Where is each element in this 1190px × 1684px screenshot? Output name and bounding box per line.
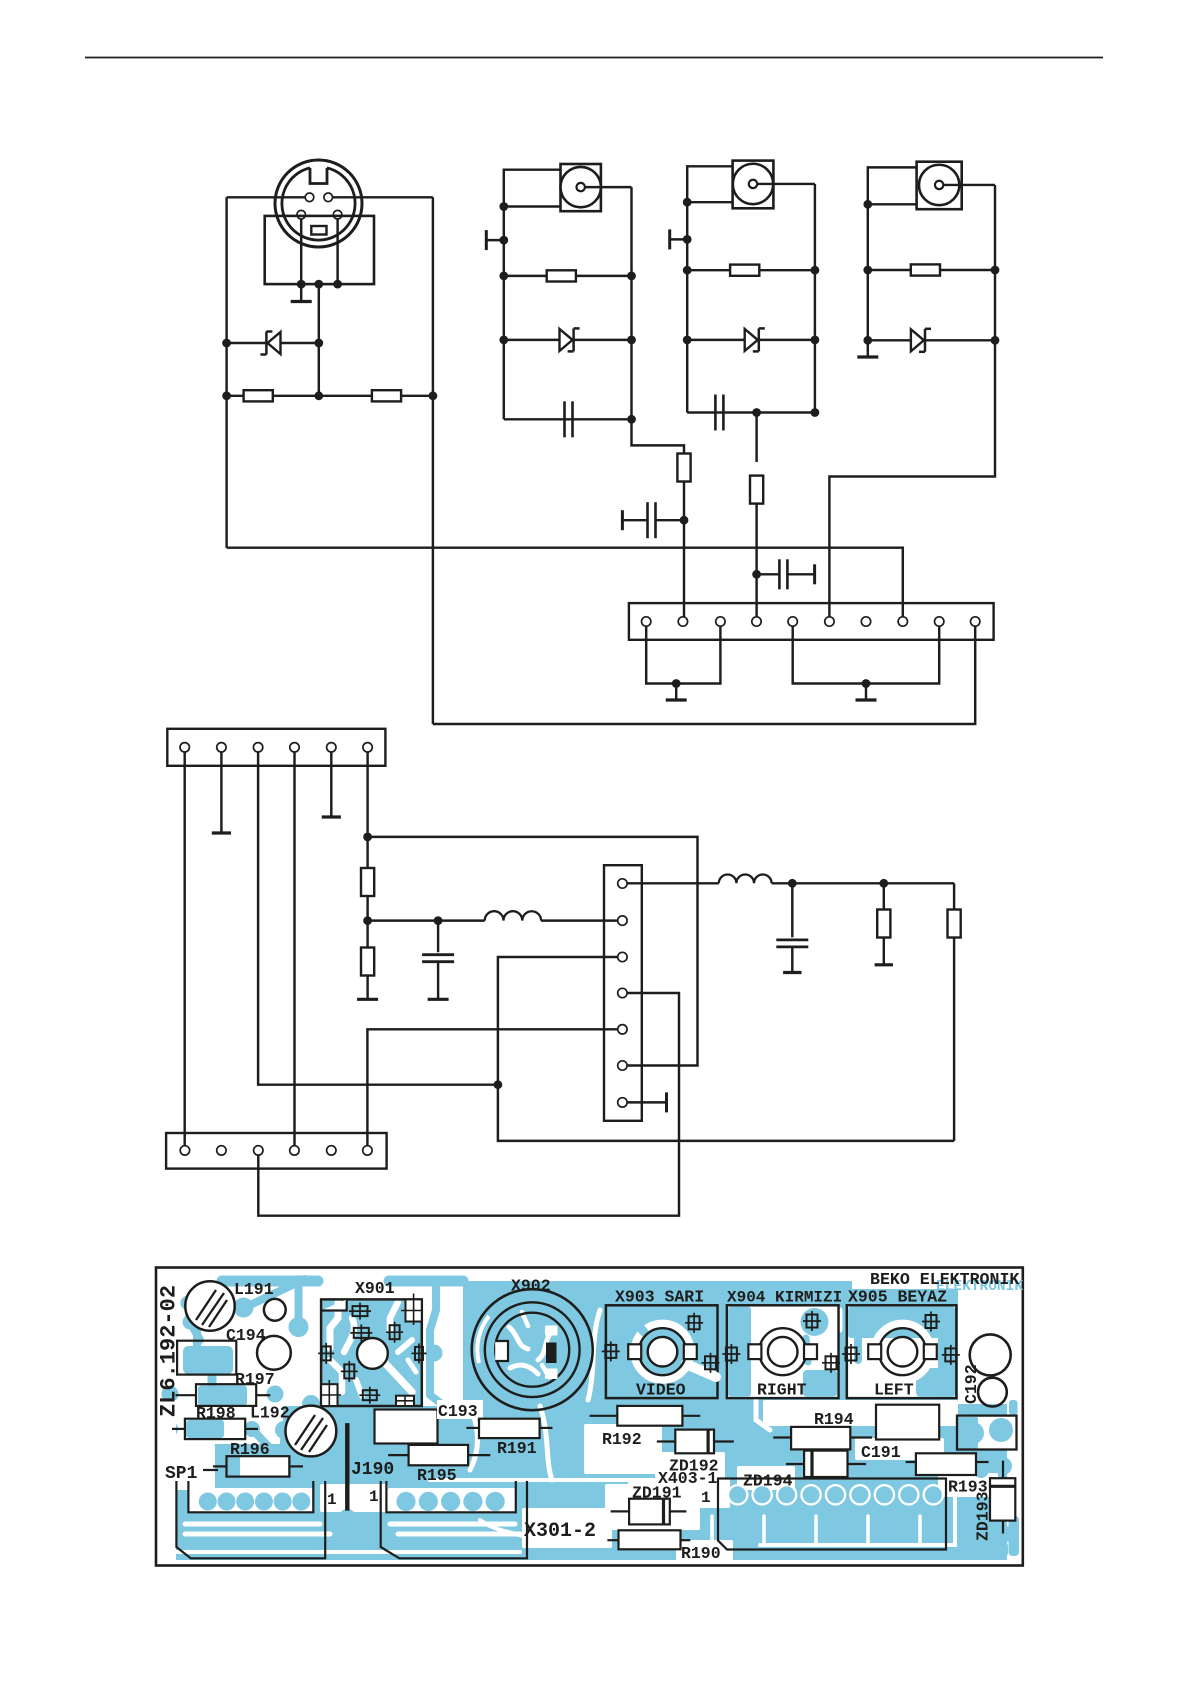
svg-text:R191: R191	[497, 1439, 537, 1458]
svg-text:C194: C194	[226, 1326, 266, 1345]
wire R193 to bottom rail	[953, 938, 955, 1141]
junction capacitor row right	[811, 408, 820, 417]
capacitor C193 to open terminal	[657, 519, 685, 521]
left bus wire down from pin3	[225, 197, 227, 547]
junction terminal row	[683, 235, 692, 244]
RCA socket tip	[577, 183, 585, 191]
ground wire pins 5-9	[793, 627, 940, 684]
junction diode row right	[811, 336, 820, 345]
X403 pin 4	[618, 988, 627, 997]
svg-text:X901: X901	[355, 1279, 395, 1298]
wire diode row DIN	[227, 342, 319, 344]
mini-DIN pin 3	[305, 193, 314, 202]
zener ZD191 body	[611, 1510, 630, 1512]
junction resistor row left	[863, 266, 872, 275]
wire pin1 to lower strip	[183, 752, 185, 1146]
X902 left notch	[495, 1341, 508, 1361]
wire X403 pin1 to coil	[627, 882, 719, 884]
PCB frame	[156, 1268, 1023, 1566]
junction diode row left	[222, 339, 231, 348]
wire long horizontal to connector pin10	[433, 617, 975, 724]
junction top loop	[499, 202, 508, 211]
capacitor	[714, 395, 717, 431]
X403 pin 7	[618, 1098, 627, 1107]
wire X403 pin4 loop	[258, 993, 679, 1216]
junction diode row right	[314, 339, 323, 348]
upper strip pin 3	[253, 743, 262, 752]
svg-text:VIDEO: VIDEO	[636, 1381, 686, 1400]
X403 pad row	[727, 1484, 944, 1506]
connector pin 4	[752, 617, 761, 626]
junction top loop	[863, 200, 872, 209]
svg-text:1: 1	[701, 1489, 711, 1507]
coil L191 top view	[185, 1281, 234, 1330]
C192 pads	[970, 1334, 1011, 1375]
svg-text:LEFT: LEFT	[874, 1381, 914, 1400]
left bus wire	[867, 204, 869, 340]
6-pin connector strip upper body	[167, 729, 385, 766]
X905 side tabs	[868, 1344, 881, 1359]
X901 center hole	[357, 1338, 388, 1369]
bracket pad rows	[199, 1492, 505, 1511]
X903 RCA ring	[634, 1323, 691, 1380]
resistor R192 body	[590, 1415, 618, 1417]
wire resistor row DIN	[227, 395, 433, 397]
wire diode row	[504, 339, 632, 341]
lower strip pin 5	[327, 1146, 336, 1155]
label C193	[437, 1400, 483, 1419]
junction resistor row right	[429, 391, 438, 400]
capacitor C191 body	[876, 1405, 939, 1440]
zener diode ZD191	[268, 332, 281, 354]
page top rule	[85, 57, 1103, 59]
svg-text:1: 1	[369, 1488, 379, 1506]
zener diode	[911, 329, 924, 351]
X403 pin 6	[618, 1061, 627, 1070]
ground below left block	[867, 340, 869, 357]
resistor R195 body	[388, 1454, 409, 1456]
wire coil to corner	[772, 882, 955, 884]
svg-text:X903 SARI: X903 SARI	[615, 1288, 704, 1307]
resistor R193 vertical	[948, 910, 961, 938]
right bus wire	[994, 185, 996, 340]
SP1 connector outline inner	[188, 1481, 313, 1512]
S-VHS mini-DIN socket X901 inner shell with key notch	[282, 168, 355, 240]
stub terminal pin5	[330, 752, 332, 817]
junction ground pins 1-3	[672, 679, 681, 688]
mini-DIN pin 1	[297, 210, 306, 219]
svg-text:X904 KIRMIZI: X904 KIRMIZI	[727, 1289, 842, 1307]
wire capacitor row	[504, 418, 632, 420]
zener ZD194 body	[786, 1463, 804, 1465]
svg-text:R195: R195	[417, 1466, 457, 1485]
component outline	[177, 1341, 236, 1375]
wire between resistors	[366, 896, 368, 948]
junction shunt cap node	[788, 879, 797, 888]
junction on box edge right	[333, 280, 342, 289]
junction shunt res node	[879, 879, 888, 888]
resistor vertical lower	[361, 948, 374, 976]
lower strip pin 3	[254, 1146, 263, 1155]
junction resistor row left	[222, 391, 231, 400]
junction diode row right	[627, 336, 636, 345]
connector pin 3	[716, 617, 725, 626]
connector pin 5	[788, 617, 797, 626]
svg-text:L191: L191	[234, 1280, 274, 1299]
RCA block cross pads	[689, 1316, 700, 1329]
inductor L191	[719, 874, 772, 883]
RCA socket tip	[935, 181, 943, 189]
resistor R194 body	[773, 1436, 791, 1438]
junction resistor row left	[499, 272, 508, 281]
jumper J190	[345, 1423, 349, 1511]
X903 footprint box	[606, 1305, 718, 1398]
svg-text:R190: R190	[681, 1544, 721, 1563]
mini-DIN pin 4	[324, 193, 333, 202]
mini-DIN bottom key	[311, 226, 326, 235]
resistor	[911, 264, 940, 275]
X901 footprint box	[321, 1299, 422, 1406]
wire resistor row	[504, 275, 632, 277]
ground symbol pins 5-9	[865, 684, 867, 701]
junction top loop	[683, 198, 692, 207]
X905 RCA ring	[848, 1307, 955, 1397]
connector pin 2	[678, 617, 687, 626]
svg-text:SP1: SP1	[165, 1464, 198, 1484]
PCB layout panel	[156, 1265, 1023, 1566]
junction right block cap row	[752, 408, 761, 417]
junction on box edge mid	[314, 280, 323, 289]
wire tip to right bus	[943, 184, 995, 186]
wire top loop upper	[687, 166, 732, 202]
wire pin4 to lower strip	[293, 752, 295, 1146]
connector pin 6	[825, 617, 834, 626]
zener diode	[560, 329, 573, 351]
resistor	[547, 270, 576, 281]
RCA socket ring	[919, 165, 959, 205]
7-pin connector X403-1 body	[604, 865, 642, 1121]
upper strip pin 2	[217, 743, 226, 752]
wire long horizontal to connector pin8	[227, 548, 903, 617]
junction resistor row left	[683, 266, 692, 275]
svg-text:C192: C192	[962, 1364, 981, 1404]
resistor R198 body	[172, 1428, 185, 1430]
resistor R197 body	[176, 1394, 197, 1396]
svg-text:X905 BEYAZ: X905 BEYAZ	[848, 1288, 947, 1307]
X905 footprint box	[847, 1305, 957, 1398]
capacitor	[563, 401, 566, 437]
component outline right	[957, 1416, 1017, 1450]
connector pin 8	[898, 617, 907, 626]
zener ZD192 body	[657, 1440, 676, 1442]
svg-text:1: 1	[327, 1491, 337, 1509]
svg-text:ZD194: ZD194	[743, 1472, 793, 1491]
S-VHS mini-DIN socket X901 outer shell	[275, 160, 362, 247]
wire node to coil	[368, 919, 485, 921]
X903 side tabs	[628, 1344, 641, 1359]
capacitor C194 body	[257, 1336, 291, 1370]
wire pin3 to node	[258, 752, 498, 1085]
PCB white routing channels	[160, 1265, 1021, 1564]
resistor R193 body	[906, 1461, 916, 1463]
capacitor C193 body	[375, 1410, 438, 1444]
shunt capacitor C192	[791, 883, 793, 937]
wire coil to 7pin connector pin2	[541, 919, 618, 921]
right bus wire	[814, 184, 816, 413]
wire top loop upper	[868, 167, 917, 204]
svg-text:R192: R192	[602, 1430, 642, 1449]
PCB copper pour	[162, 1279, 1008, 1560]
X403 pin 2	[618, 916, 627, 925]
wire R191 to pin2	[683, 482, 685, 618]
open terminal	[486, 239, 504, 241]
left bus wire	[686, 202, 688, 412]
lower strip pin 4	[290, 1146, 299, 1155]
junction resistor row mid	[314, 391, 323, 400]
svg-text:X301-2: X301-2	[524, 1520, 596, 1543]
capacitor C194 shunt	[437, 921, 439, 953]
open terminal X403 pin7	[627, 1101, 666, 1103]
bottom slab blobs	[430, 1400, 1019, 1557]
junction terminal row	[499, 236, 508, 245]
X301 left outline inner	[386, 1481, 515, 1512]
RCA socket ring	[561, 167, 601, 207]
wire node to 7pin connector pin6	[368, 837, 698, 1066]
lower strip pin 1	[180, 1146, 189, 1155]
lower strip pin 2	[217, 1146, 226, 1155]
svg-text:RIGHT: RIGHT	[757, 1381, 807, 1400]
ground wire pins 1-3	[646, 627, 720, 684]
junction resistor row right	[811, 266, 820, 275]
junction resistor row right	[627, 272, 636, 281]
X403 pin 5	[618, 1025, 627, 1034]
mini-DIN body box	[265, 216, 374, 284]
X403 footprint outline	[718, 1479, 946, 1550]
stub terminal pin2	[220, 752, 222, 833]
jumper J190 pad	[338, 1509, 356, 1527]
resistor R191 body	[466, 1427, 479, 1429]
resistor R195 vertical	[750, 476, 763, 504]
wire left block to pin6	[829, 340, 995, 617]
zener ZD193 body	[1002, 1461, 1004, 1479]
junction resistor row right	[991, 266, 1000, 275]
wire right chain down	[953, 883, 955, 909]
junction C193 node	[680, 516, 689, 525]
svg-text:L192: L192	[250, 1404, 290, 1423]
resistor	[730, 265, 759, 276]
wire pin1 down to box edge	[300, 219, 302, 284]
connector pin 1	[642, 617, 651, 626]
X901 grid pad bottom right	[396, 1396, 414, 1406]
X904 side tabs	[748, 1344, 761, 1359]
X904 RCA ring	[728, 1307, 837, 1397]
RCA socket ring	[733, 164, 773, 204]
wire pin3 to left bus	[227, 196, 306, 198]
X901 grid pad bottom left	[321, 1384, 337, 1406]
X902 hosiden footprint	[472, 1289, 593, 1410]
wire X403 pin5 to lower strip pin6	[367, 1029, 617, 1145]
wire top loop lower	[687, 201, 732, 203]
svg-text:C191: C191	[861, 1443, 901, 1462]
mini-DIN pin 2	[333, 210, 342, 219]
svg-text:ZD193: ZD193	[974, 1491, 993, 1541]
X403 pin 1	[618, 879, 627, 888]
wire capacitor row	[687, 411, 815, 413]
wire tip to right bus	[757, 183, 815, 185]
junction filter node	[363, 916, 372, 925]
svg-text:R197: R197	[235, 1370, 275, 1389]
RCA phono socket body	[561, 164, 601, 211]
svg-text:X902: X902	[511, 1277, 551, 1296]
wire shield node down to diode row	[318, 284, 320, 396]
junction cap node	[434, 916, 443, 925]
shunt resistor R194	[883, 883, 885, 909]
resistor vertical upper	[361, 868, 374, 896]
right bus wire	[630, 187, 632, 419]
wire top loop lower	[504, 205, 561, 207]
open terminal	[670, 238, 688, 240]
wire top loop upper	[504, 170, 561, 207]
wire pin6 down	[366, 752, 368, 869]
svg-text:BEKO ELEKTRONIK: BEKO ELEKTRONIK	[870, 1270, 1019, 1289]
ground below mini-DIN	[300, 284, 302, 301]
zener diode	[745, 329, 758, 351]
X901 cross pads	[353, 1306, 368, 1316]
upper strip pin 4	[290, 743, 299, 752]
RCA phono socket body	[733, 161, 774, 209]
wire video block to R191	[632, 419, 685, 454]
svg-text:X403-1: X403-1	[658, 1469, 718, 1488]
wire diode row	[687, 339, 815, 341]
capacitor C191 to open terminal	[757, 573, 780, 575]
X901 corner notch	[321, 1299, 347, 1310]
wire top loop lower	[868, 203, 917, 205]
resistor R197	[372, 390, 401, 401]
junction capacitor row right	[627, 415, 636, 424]
wire diode row	[868, 339, 995, 341]
upper strip pin 5	[327, 743, 336, 752]
svg-text:C193: C193	[438, 1402, 478, 1421]
junction L190 node	[363, 833, 372, 842]
resistor R196 body	[213, 1465, 227, 1467]
X902 key slot black	[546, 1343, 557, 1364]
lower strip pin 6	[363, 1146, 372, 1155]
connector pin 10	[971, 617, 980, 626]
right bus wire down from pin4	[432, 197, 434, 724]
wire resistor row	[868, 269, 995, 271]
connector pin 7	[861, 617, 870, 626]
svg-text:J190: J190	[351, 1460, 394, 1480]
junction ground pins 5-9	[862, 679, 871, 688]
resistor R190 body	[607, 1539, 618, 1541]
10-pin connector X301-1 body	[629, 603, 994, 640]
junction diode row right	[991, 336, 1000, 345]
wire pin4 to right bus	[333, 196, 433, 198]
wire tip to right bus	[585, 186, 632, 188]
X904 footprint box	[727, 1305, 839, 1398]
RCA phono socket body	[917, 162, 962, 210]
6-pin connector strip lower body	[166, 1133, 387, 1169]
via hole	[264, 1299, 286, 1321]
left bus wire	[503, 207, 505, 420]
upper strip pin 6	[363, 743, 372, 752]
junction diode row left	[683, 336, 692, 345]
coil L192 top view	[286, 1406, 337, 1457]
wire R195 to pin4	[755, 504, 757, 617]
resistor R191 vertical	[677, 454, 690, 482]
X301 left outline outer	[381, 1481, 527, 1558]
ground below resistor	[366, 976, 368, 1000]
wire pin2 down to box edge	[336, 219, 338, 284]
inductor L192	[485, 911, 541, 920]
wire X403 pin3 chain	[498, 957, 954, 1141]
X403 pin 3	[618, 952, 627, 961]
connector pin 9	[935, 617, 944, 626]
junction on box edge left	[297, 280, 306, 289]
junction diode row left	[499, 336, 508, 345]
upper strip pin 1	[180, 743, 189, 752]
junction C191 node	[752, 570, 761, 579]
junction diode row left	[863, 336, 872, 345]
X901 grid pad top right	[406, 1299, 422, 1321]
RCA socket tip	[749, 180, 757, 188]
resistor R198	[244, 390, 273, 401]
wire right block to R195	[755, 413, 757, 463]
ground symbol pins 1-3	[675, 684, 677, 701]
wire resistor row	[687, 269, 815, 271]
SP1 connector outline outer	[176, 1481, 325, 1558]
svg-text:R198: R198	[196, 1404, 236, 1423]
junction pin3 chain	[494, 1080, 503, 1089]
